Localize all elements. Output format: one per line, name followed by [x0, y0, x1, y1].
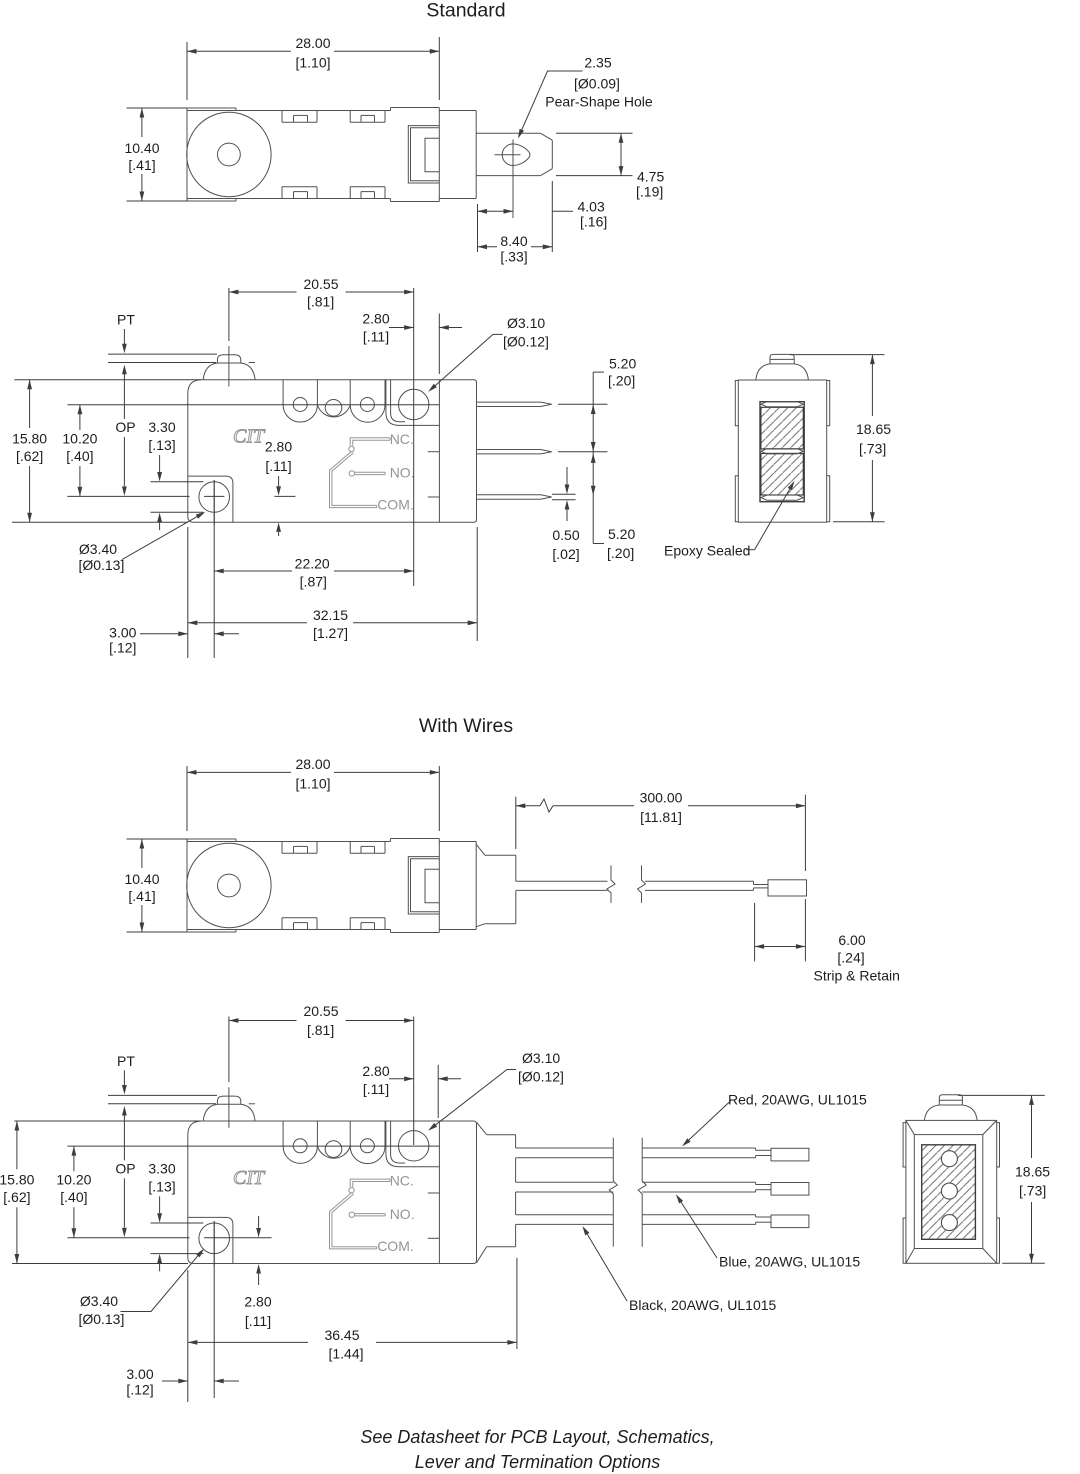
plunger	[203, 346, 255, 387]
dim 5.20 bottom (NO-COM)	[591, 452, 636, 561]
svg-text:[.62]: [.62]	[3, 1189, 30, 1205]
epoxy window with hatched epoxy fill	[760, 402, 804, 502]
dim 22.20	[214, 480, 414, 658]
svg-text:Ø3.40: Ø3.40	[80, 1293, 118, 1309]
svg-text:3.30: 3.30	[148, 1160, 175, 1176]
svg-text:[Ø0.13]: [Ø0.13]	[78, 1311, 124, 1327]
corner step bottom left	[188, 1217, 233, 1263]
end cap (top view)	[439, 111, 476, 199]
svg-text:[Ø0.12]: [Ø0.12]	[518, 1069, 564, 1085]
svg-text:Standard: Standard	[426, 0, 505, 22]
boot bevel frame	[906, 1120, 997, 1263]
dim 18.65 end view	[790, 355, 891, 522]
svg-text:Ø3.10: Ø3.10	[507, 315, 545, 331]
dim 2.80 top right	[362, 311, 462, 375]
mounting hole bottom left Ø3.40	[199, 480, 230, 525]
svg-text:See Datasheet for PCB Layout,: See Datasheet for PCB Layout, Schematics…	[360, 1427, 714, 1447]
svg-text:[.20]: [.20]	[608, 373, 635, 389]
hatched wire window	[922, 1145, 976, 1240]
svg-text:CIT: CIT	[233, 426, 266, 448]
svg-text:[.73]: [.73]	[1019, 1183, 1046, 1199]
with-wires top view switch body	[187, 839, 439, 933]
extension lines body top/bottom	[14, 1120, 201, 1122]
end view outline (with wires)	[903, 1120, 999, 1263]
dim 5.20 top (NC-NO)	[558, 356, 636, 452]
svg-text:[.33]: [.33]	[500, 249, 527, 265]
svg-text:[.11]: [.11]	[245, 1313, 271, 1329]
svg-text:28.00: 28.00	[295, 35, 330, 51]
blade terminals NC NO COM	[428, 402, 552, 499]
svg-text:2.80: 2.80	[362, 1063, 389, 1079]
svg-text:[.24]: [.24]	[837, 950, 864, 966]
svg-text:Epoxy Sealed: Epoxy Sealed	[664, 543, 750, 559]
dim 20.55	[229, 276, 414, 586]
svg-text:PT: PT	[117, 1053, 135, 1069]
corner notch around mounting hole (top right)	[386, 380, 440, 426]
dim 2.80 top right (with wires)	[362, 1063, 461, 1118]
svg-text:OP: OP	[115, 419, 135, 435]
corner notch around mounting hole (top right)	[386, 1121, 440, 1167]
svg-text:[.87]: [.87]	[300, 574, 327, 590]
svg-text:[Ø0.13]: [Ø0.13]	[78, 557, 124, 573]
internal terminal stubs at joint	[428, 1193, 440, 1238]
mounting hole top right Ø3.10	[399, 1131, 429, 1161]
svg-text:[1.44]: [1.44]	[328, 1346, 363, 1362]
body/end-cap joint	[438, 380, 440, 523]
svg-text:[.19]: [.19]	[636, 184, 663, 200]
internal circuit symbol NC/NO/COM	[330, 1173, 415, 1254]
mounting hole bottom left Ø3.40	[199, 1221, 230, 1266]
dim 15.80	[12, 380, 47, 523]
svg-text:20.55: 20.55	[303, 1003, 338, 1019]
svg-text:[.73]: [.73]	[859, 440, 886, 456]
svg-text:[1.27]: [1.27]	[313, 625, 348, 641]
svg-text:Pear-Shape Hole: Pear-Shape Hole	[545, 94, 653, 110]
svg-text:10.20: 10.20	[56, 1172, 91, 1188]
dim 10.20	[62, 405, 97, 497]
svg-text:[.12]: [.12]	[109, 640, 136, 656]
svg-text:32.15: 32.15	[313, 607, 348, 623]
svg-text:18.65: 18.65	[1015, 1163, 1050, 1179]
terminal bay arcs and bosses	[283, 1121, 385, 1164]
svg-text:Strip & Retain: Strip & Retain	[814, 968, 900, 984]
connector housing (top view)	[408, 857, 439, 914]
dim 300.00	[516, 789, 806, 871]
svg-text:[.11]: [.11]	[265, 458, 291, 474]
svg-text:18.65: 18.65	[856, 421, 891, 437]
svg-text:2.80: 2.80	[362, 311, 389, 327]
svg-text:[.20]: [.20]	[607, 545, 634, 561]
end view plunger	[756, 354, 809, 380]
svg-text:[.11]: [.11]	[363, 1081, 389, 1097]
svg-text:2.35: 2.35	[584, 55, 611, 71]
svg-text:15.80: 15.80	[12, 430, 47, 446]
corner step bottom left	[188, 476, 233, 522]
svg-text:NO.: NO.	[390, 1206, 415, 1222]
svg-text:[.11]: [.11]	[363, 329, 389, 345]
wire boot (top view)	[476, 844, 516, 926]
internal circuit symbol NC/NO/COM	[330, 431, 415, 512]
mounting tab cutouts	[282, 842, 385, 930]
svg-text:20.55: 20.55	[303, 276, 338, 292]
dim 0.50 blade thickness	[552, 467, 580, 562]
plunger	[203, 1087, 255, 1128]
svg-text:4.75: 4.75	[637, 169, 664, 185]
OP line	[67, 1237, 271, 1239]
svg-text:5.20: 5.20	[608, 526, 635, 542]
roller circle	[187, 843, 271, 927]
svg-text:Blue, 20AWG, UL1015: Blue, 20AWG, UL1015	[719, 1254, 860, 1270]
end cap (top view)	[439, 842, 476, 930]
dim 4.75	[556, 133, 664, 199]
PT lines and dim	[108, 1053, 217, 1161]
svg-text:28.00: 28.00	[295, 756, 330, 772]
leader 2.35 pear-shape hole	[518, 55, 653, 139]
svg-text:[.16]: [.16]	[580, 214, 607, 230]
svg-text:0.50: 0.50	[552, 527, 579, 543]
dim 3.00 (with wires)	[126, 1221, 239, 1398]
leader Ø3.10 (with wires)	[428, 1050, 564, 1131]
svg-text:[.13]: [.13]	[148, 437, 175, 453]
leader Ø3.40 (with wires)	[78, 1249, 204, 1327]
dim 3.00	[109, 625, 239, 656]
svg-text:[.81]: [.81]	[307, 294, 334, 310]
end view plunger (with wires)	[924, 1095, 977, 1121]
svg-text:3.30: 3.30	[148, 419, 175, 435]
terminal bay arcs and bosses	[283, 380, 385, 423]
svg-text:[11.81]: [11.81]	[640, 809, 682, 825]
svg-text:5.20: 5.20	[609, 356, 636, 372]
top view switch body	[187, 108, 439, 202]
OP line	[67, 495, 295, 497]
wire labels	[582, 1092, 867, 1314]
dim 4.03	[478, 181, 608, 252]
parting line / terminal ref line	[67, 1145, 439, 1147]
svg-text:[.13]: [.13]	[148, 1178, 175, 1194]
dim 28.00 top	[187, 35, 439, 100]
svg-text:[.12]: [.12]	[126, 1382, 153, 1398]
dim 8.40	[478, 233, 553, 265]
mounting hole top right Ø3.10	[399, 389, 429, 419]
svg-text:6.00: 6.00	[838, 932, 865, 948]
svg-text:NC.: NC.	[390, 431, 414, 447]
wire (top view) with break	[516, 865, 807, 903]
roller circle	[187, 112, 271, 196]
svg-text:36.45: 36.45	[324, 1327, 359, 1343]
dim 3.30	[148, 419, 203, 530]
svg-text:OP: OP	[115, 1160, 135, 1176]
leader Ø3.10	[428, 315, 549, 392]
svg-text:[.40]: [.40]	[60, 1189, 87, 1205]
dim 2.80 lower (with wires)	[244, 1216, 271, 1329]
svg-text:2.80: 2.80	[265, 439, 292, 455]
connector housing (top view)	[408, 126, 439, 183]
dim 18.65 (with wires)	[958, 1095, 1050, 1263]
svg-text:300.00: 300.00	[640, 789, 683, 805]
side view body outline	[188, 380, 477, 523]
mounting tab cutouts	[282, 111, 385, 199]
terminal with pear-shape hole	[476, 133, 552, 218]
svg-text:NO.: NO.	[390, 465, 415, 481]
end view outline	[735, 380, 829, 522]
dim 15.80	[0, 1121, 35, 1264]
svg-text:2.80: 2.80	[244, 1294, 271, 1310]
extension lines body top/bottom	[14, 379, 201, 381]
leader Ø3.40	[78, 512, 205, 573]
svg-text:PT: PT	[117, 312, 135, 328]
svg-text:[.81]: [.81]	[307, 1022, 334, 1038]
svg-text:CIT: CIT	[233, 1167, 266, 1189]
dim 32.15	[188, 527, 477, 658]
svg-text:Lever and Termination Options: Lever and Termination Options	[415, 1452, 660, 1472]
three wires (side view) with breaks	[516, 1138, 809, 1247]
svg-text:8.40: 8.40	[500, 233, 527, 249]
dim 10.40 (with wires)	[124, 839, 187, 932]
svg-text:[.40]: [.40]	[66, 448, 93, 464]
dim 36.45	[188, 1258, 517, 1402]
svg-text:Red, 20AWG, UL1015: Red, 20AWG, UL1015	[728, 1092, 867, 1108]
dim 10.40 left	[124, 108, 187, 201]
svg-text:15.80: 15.80	[0, 1172, 35, 1188]
svg-text:10.40: 10.40	[124, 140, 159, 156]
svg-text:[1.10]: [1.10]	[295, 54, 330, 70]
svg-text:3.00: 3.00	[109, 625, 136, 641]
svg-text:COM.: COM.	[377, 497, 414, 513]
dim 20.55 (with wires)	[229, 1003, 414, 1145]
svg-text:[.02]: [.02]	[552, 546, 579, 562]
PT lines and dim	[108, 312, 217, 420]
OP label and dim	[115, 1160, 135, 1237]
svg-text:Black, 20AWG, UL1015: Black, 20AWG, UL1015	[629, 1297, 777, 1313]
svg-text:[Ø0.09]: [Ø0.09]	[574, 76, 620, 92]
svg-text:COM.: COM.	[377, 1238, 414, 1254]
svg-text:[1.10]: [1.10]	[295, 775, 330, 791]
wire boot (side view)	[477, 1122, 516, 1262]
side view body outline	[188, 1121, 477, 1264]
svg-text:10.40: 10.40	[124, 871, 159, 887]
dim 3.30	[148, 1160, 203, 1271]
svg-text:[.41]: [.41]	[128, 888, 155, 904]
svg-text:Ø3.40: Ø3.40	[79, 541, 117, 557]
svg-text:NC.: NC.	[390, 1173, 414, 1189]
svg-text:3.00: 3.00	[126, 1366, 153, 1382]
svg-text:4.03: 4.03	[578, 199, 605, 215]
svg-text:22.20: 22.20	[295, 556, 330, 572]
dim 10.20	[56, 1146, 91, 1238]
leader Epoxy Sealed	[664, 481, 795, 559]
svg-text:[.62]: [.62]	[16, 448, 43, 464]
svg-text:Ø3.10: Ø3.10	[522, 1050, 560, 1066]
parting line / terminal ref line	[67, 404, 439, 406]
body/end-cap joint	[438, 1121, 440, 1264]
footer note	[360, 1427, 714, 1472]
OP label and dim	[115, 419, 135, 496]
svg-text:[.41]: [.41]	[128, 157, 155, 173]
svg-text:[Ø0.12]: [Ø0.12]	[503, 334, 549, 350]
svg-text:10.20: 10.20	[62, 430, 97, 446]
svg-text:With Wires: With Wires	[419, 715, 513, 737]
dim 6.00 strip and retain	[755, 899, 900, 984]
dim 2.80 lower	[265, 439, 292, 537]
dim 28.00 (with wires)	[187, 756, 439, 831]
